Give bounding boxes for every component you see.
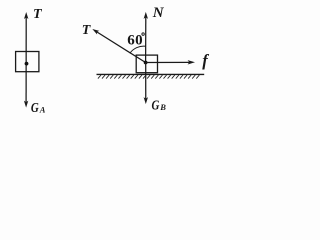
svg-text:B: B — [159, 102, 166, 112]
svg-text:A: A — [39, 104, 46, 114]
svg-text:N: N — [152, 5, 165, 21]
svg-text:60: 60 — [127, 33, 143, 49]
svg-text:T: T — [33, 7, 43, 22]
svg-text:G: G — [31, 100, 39, 116]
svg-text:T: T — [82, 23, 92, 38]
svg-text:G: G — [152, 97, 160, 113]
svg-text:f: f — [202, 51, 209, 70]
